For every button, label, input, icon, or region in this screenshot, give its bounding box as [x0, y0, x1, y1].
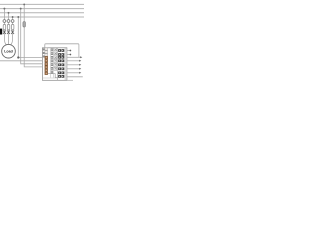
output wire row 2	[67, 60, 81, 62]
inner divider line	[57, 48, 59, 81]
output wire row 1	[67, 56, 82, 58]
bus line N	[0, 16, 84, 18]
sense wire L1 to meter	[24, 4, 42, 67]
terminal circle C	[11, 20, 14, 23]
node tap C on N	[12, 16, 14, 18]
meter terminal block outline	[42, 48, 67, 81]
neutral feeder wire	[0, 60, 42, 62]
meter top wire	[45, 44, 79, 58]
node tap L2 sense	[20, 8, 22, 10]
inner bottom line	[42, 77, 57, 79]
output wire row 4	[67, 68, 81, 70]
wire drop phase C	[10, 17, 12, 45]
fuse X mark C	[11, 30, 14, 34]
black label block	[0, 29, 2, 35]
bus line L1	[0, 3, 84, 5]
stub wire T2	[67, 50, 70, 52]
left dark terminals	[43, 48, 45, 57]
node tap L1 sense	[23, 3, 25, 5]
internal step wire	[48, 74, 60, 78]
terminal circle A	[3, 20, 6, 23]
fuse F1	[23, 22, 26, 28]
svg-text:Load: Load	[4, 50, 13, 54]
node tap A on L2	[3, 8, 5, 10]
bottom stub wire	[67, 79, 73, 81]
output wire row 6	[67, 76, 83, 78]
node corner N	[17, 56, 19, 58]
bus line L2	[0, 8, 84, 10]
fuse X mark A	[3, 30, 6, 34]
load M1	[2, 44, 16, 58]
fuse X mark B	[7, 30, 10, 34]
output wire row 3	[67, 64, 81, 66]
node tap B on L3	[8, 12, 10, 14]
wire drop phase A	[4, 9, 6, 46]
second terminal column	[54, 48, 57, 70]
inner cell column line	[64, 48, 66, 81]
sense wire L2 to meter	[21, 9, 43, 64]
node tap N	[17, 16, 19, 18]
bus line L3	[0, 12, 84, 14]
right terminal strip	[58, 49, 64, 78]
orange terminal column	[45, 48, 48, 75]
stub wire T4	[67, 54, 70, 56]
output wire row 5	[67, 72, 81, 74]
sense wire N to meter	[18, 17, 42, 58]
CT oval B	[7, 24, 10, 29]
CT oval A	[3, 24, 5, 29]
wire drop phase B	[8, 13, 10, 45]
middle glyph column	[50, 48, 53, 77]
CT oval C	[11, 24, 14, 29]
terminal circle B	[7, 20, 10, 23]
